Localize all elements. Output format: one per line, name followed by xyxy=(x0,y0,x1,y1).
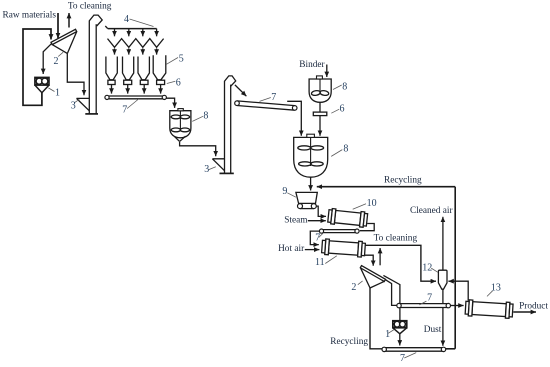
svg-text:9: 9 xyxy=(282,186,287,197)
svg-text:12: 12 xyxy=(422,263,432,274)
svg-text:Hot air: Hot air xyxy=(278,244,305,254)
svg-text:1: 1 xyxy=(55,88,60,99)
svg-text:2: 2 xyxy=(54,56,59,67)
svg-text:Dust: Dust xyxy=(424,325,442,335)
svg-text:To cleaning: To cleaning xyxy=(68,2,112,12)
svg-text:11: 11 xyxy=(315,257,325,268)
svg-text:5: 5 xyxy=(179,53,184,64)
svg-text:To cleaning: To cleaning xyxy=(374,234,418,244)
svg-text:7: 7 xyxy=(122,104,127,115)
svg-text:Cleaned air: Cleaned air xyxy=(410,206,453,216)
svg-text:8: 8 xyxy=(343,143,348,154)
svg-text:4: 4 xyxy=(124,14,129,25)
svg-text:13: 13 xyxy=(491,282,501,293)
svg-text:8: 8 xyxy=(203,110,208,121)
svg-text:Recycling: Recycling xyxy=(384,176,422,186)
svg-text:3: 3 xyxy=(204,164,209,175)
svg-text:Raw materials: Raw materials xyxy=(3,10,57,20)
svg-text:Binder: Binder xyxy=(299,60,325,70)
svg-text:8: 8 xyxy=(342,82,347,93)
svg-text:6: 6 xyxy=(176,78,181,89)
svg-text:6: 6 xyxy=(340,104,345,115)
svg-text:1: 1 xyxy=(385,329,390,340)
svg-text:Recycling: Recycling xyxy=(330,337,368,347)
svg-text:Steam: Steam xyxy=(284,216,308,226)
svg-text:7: 7 xyxy=(271,92,276,103)
svg-text:2: 2 xyxy=(351,282,356,293)
svg-text:Product: Product xyxy=(519,302,548,312)
svg-text:10: 10 xyxy=(367,198,377,209)
svg-text:7: 7 xyxy=(400,353,405,364)
svg-text:3: 3 xyxy=(71,101,76,112)
svg-text:7: 7 xyxy=(427,292,432,303)
svg-text:7: 7 xyxy=(315,233,320,244)
